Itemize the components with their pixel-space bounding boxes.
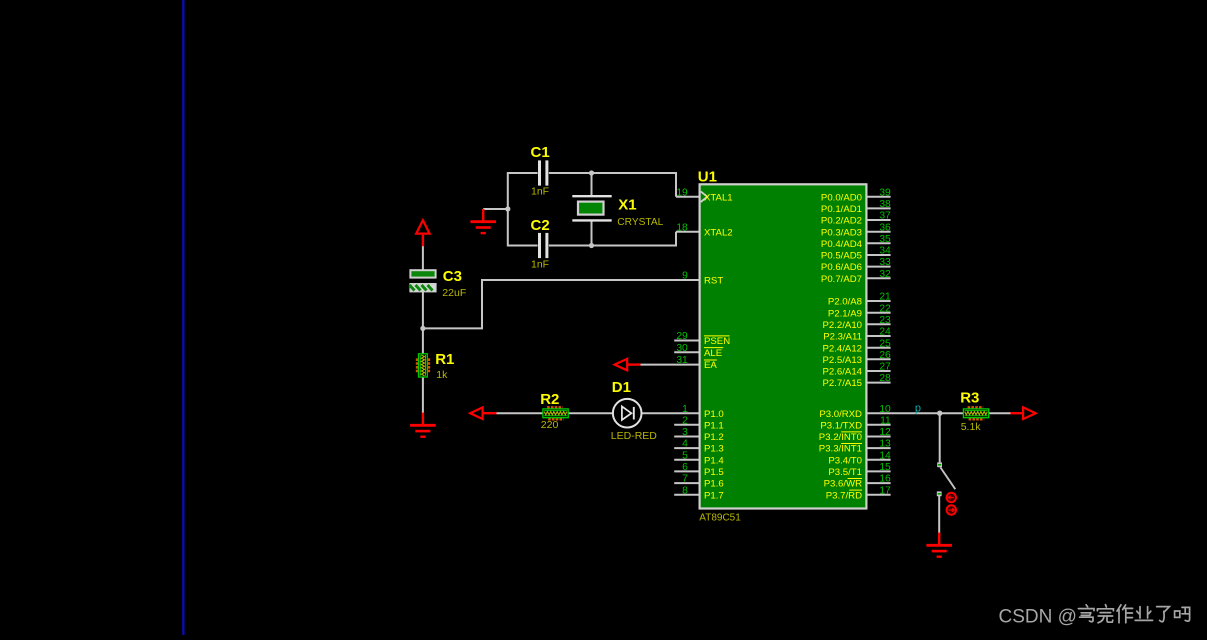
- wire: ground stub to left vertical: [483, 208, 508, 210]
- svg-text:P3.5/T1: P3.5/T1: [828, 467, 862, 478]
- svg-text:5.1k: 5.1k: [961, 421, 982, 433]
- pin 27 P2.6/A14: [823, 362, 892, 378]
- svg-text:P2.1/A9: P2.1/A9: [828, 308, 862, 319]
- wire: C1 top branch to pin19 elbow: [508, 172, 699, 197]
- svg-text:P1.0: P1.0: [704, 409, 724, 420]
- pin 22 P2.1/A9: [828, 303, 891, 319]
- svg-text:P0.4/AD4: P0.4/AD4: [821, 239, 863, 250]
- svg-text:9: 9: [682, 271, 688, 282]
- svg-text:35: 35: [879, 234, 891, 245]
- svg-text:P3.1/TXD: P3.1/TXD: [820, 420, 862, 431]
- power terminal (right arrow) after R3: [1010, 407, 1035, 419]
- svg-text:P2.4/A12: P2.4/A12: [823, 343, 862, 354]
- power terminal VCC (up arrow) above C3: [416, 220, 429, 246]
- pin 17 P3.7/RD: [826, 485, 891, 501]
- svg-text:1: 1: [682, 404, 688, 415]
- svg-text:31: 31: [676, 355, 688, 366]
- svg-text:22uF: 22uF: [442, 287, 466, 299]
- pin 3 P1.2: [674, 427, 724, 443]
- svg-text:R1: R1: [435, 351, 454, 368]
- svg-text:P3.3/INT1: P3.3/INT1: [819, 444, 862, 455]
- pin 35 P0.4/AD4: [821, 234, 891, 250]
- clock input symbol at XTAL1: [701, 191, 708, 202]
- wire: crystal bottom drop: [591, 220, 593, 245]
- wire: left vertical joining C1 and C2: [507, 172, 509, 247]
- svg-text:P0.5/AD5: P0.5/AD5: [821, 251, 862, 262]
- svg-text:P1.3: P1.3: [704, 444, 724, 455]
- svg-text:P2.3/A11: P2.3/A11: [823, 332, 862, 343]
- pin 14 P3.4/T0: [828, 450, 891, 466]
- svg-text:11: 11: [880, 415, 891, 426]
- pin 5 P1.4: [674, 450, 724, 466]
- pin 23 P2.2/A10: [823, 315, 892, 331]
- pin 6 P1.5: [674, 462, 724, 478]
- junction: C2/crystal bottom: [589, 243, 594, 248]
- svg-text:19: 19: [676, 187, 688, 198]
- wire: crystal top drop: [591, 173, 593, 196]
- junction: RST / C3-R1 vertical: [420, 326, 425, 331]
- wire: switch bottom pad to ground: [938, 496, 940, 534]
- pin 21 P2.0/A8: [828, 292, 891, 308]
- svg-text:CRYSTAL: CRYSTAL: [617, 217, 663, 228]
- svg-text:P0.1/AD1: P0.1/AD1: [821, 204, 862, 215]
- pin 13 P3.3/INT1: [819, 439, 891, 455]
- svg-text:36: 36: [879, 222, 891, 233]
- svg-text:33: 33: [879, 257, 891, 268]
- pin 37 P0.2/AD2: [821, 211, 891, 227]
- svg-text:17: 17: [879, 485, 891, 496]
- svg-text:PSEN: PSEN: [704, 336, 730, 347]
- svg-text:12: 12: [879, 427, 891, 438]
- svg-text:P2.5/A13: P2.5/A13: [823, 355, 862, 366]
- svg-text:7: 7: [682, 474, 688, 485]
- pin 31 EA: [676, 355, 717, 371]
- svg-text:P2.2/A10: P2.2/A10: [823, 320, 862, 331]
- svg-text:AT89C51: AT89C51: [699, 512, 741, 523]
- svg-text:P1.4: P1.4: [704, 455, 724, 466]
- svg-text:1k: 1k: [436, 369, 448, 381]
- pin 33 P0.6/AD6: [821, 257, 891, 273]
- junction: C1/crystal top: [589, 170, 594, 175]
- svg-text:P1.7: P1.7: [704, 490, 724, 501]
- svg-text:6: 6: [682, 462, 688, 473]
- wire: P1.0 net (chip to LED, LED to R2, R2 to terminal): [496, 412, 699, 414]
- svg-text:p: p: [915, 402, 921, 414]
- resistor R2: [543, 407, 568, 419]
- svg-text:D1: D1: [612, 379, 631, 396]
- pin 36 P0.3/AD3: [821, 222, 891, 238]
- wire: P3.0 net "p" (pin10 to R3, with switch tap): [867, 412, 1011, 414]
- svg-text:EA: EA: [704, 360, 717, 371]
- ground: crystal net: [470, 209, 496, 233]
- svg-text:15: 15: [879, 462, 891, 473]
- svg-text:P3.6/WR: P3.6/WR: [824, 479, 862, 490]
- svg-text:1nF: 1nF: [531, 186, 549, 198]
- svg-text:5: 5: [682, 450, 688, 461]
- svg-text:P0.6/AD6: P0.6/AD6: [821, 262, 862, 273]
- svg-text:P1.2: P1.2: [704, 432, 724, 443]
- pin 10 P3.0/RXD: [819, 404, 891, 420]
- wire: junction down to switch top pad: [939, 413, 941, 462]
- svg-text:24: 24: [879, 327, 891, 338]
- svg-text:16: 16: [879, 474, 891, 485]
- pin 30 ALE: [674, 343, 723, 359]
- svg-text:37: 37: [879, 211, 891, 222]
- pin 24 P2.3/A11: [823, 327, 891, 343]
- LED D1: [613, 399, 642, 428]
- svg-text:10: 10: [879, 404, 891, 415]
- svg-text:22: 22: [879, 303, 891, 314]
- svg-text:P0.7/AD7: P0.7/AD7: [821, 274, 862, 285]
- svg-text:P2.6/A14: P2.6/A14: [823, 367, 863, 378]
- capacitor C1: [538, 160, 548, 185]
- wire: VCC arrow to C3 top plate: [422, 246, 424, 270]
- pin 18 XTAL2: [676, 222, 732, 238]
- svg-text:P3.4/T0: P3.4/T0: [828, 455, 862, 466]
- switch pole pads and lever: [937, 462, 956, 496]
- svg-text:220: 220: [541, 419, 559, 431]
- switch actuator circles: [947, 493, 956, 515]
- pin 8 P1.7: [674, 485, 724, 501]
- svg-text:P1.6: P1.6: [704, 479, 724, 490]
- svg-text:4: 4: [682, 439, 688, 450]
- svg-text:34: 34: [879, 246, 891, 257]
- power terminal (left arrow) at R2: [470, 407, 496, 419]
- svg-text:25: 25: [879, 338, 891, 349]
- pin 34 P0.5/AD5: [821, 246, 891, 262]
- pin 25 P2.4/A12: [823, 338, 892, 354]
- svg-text:18: 18: [676, 222, 688, 233]
- capacitor C2: [538, 233, 548, 258]
- capacitor C3 (electrolytic): [410, 270, 436, 291]
- pin 9 RST: [682, 271, 723, 287]
- svg-text:26: 26: [879, 350, 891, 361]
- junction: P3.0 / switch: [937, 411, 942, 416]
- svg-text:38: 38: [879, 199, 891, 210]
- svg-text:R3: R3: [960, 390, 979, 407]
- pin 2 P1.1: [674, 415, 724, 431]
- svg-text:14: 14: [879, 450, 891, 461]
- wire: C3 bottom plate to R1 top: [422, 292, 424, 355]
- pin 29 PSEN: [674, 331, 730, 347]
- svg-text:U1: U1: [698, 169, 717, 186]
- pin 38 P0.1/AD1: [821, 199, 891, 215]
- svg-text:3: 3: [682, 427, 688, 438]
- svg-text:X1: X1: [618, 197, 636, 214]
- svg-text:P2.7/A15: P2.7/A15: [823, 378, 862, 389]
- pin 1 P1.0: [682, 404, 724, 420]
- svg-text:XTAL2: XTAL2: [704, 227, 733, 238]
- svg-text:P3.0/RXD: P3.0/RXD: [819, 409, 862, 420]
- svg-text:8: 8: [682, 485, 688, 496]
- pin 15 P3.5/T1: [828, 462, 891, 478]
- svg-text:27: 27: [879, 362, 891, 373]
- svg-text:P0.0/AD0: P0.0/AD0: [821, 192, 862, 203]
- svg-text:P0.2/AD2: P0.2/AD2: [821, 216, 862, 227]
- junction: ground / left vertical: [505, 206, 510, 211]
- wire: EA terminal to pin31: [640, 364, 699, 366]
- svg-text:P3.7/RD: P3.7/RD: [826, 490, 862, 501]
- svg-text:39: 39: [879, 187, 891, 198]
- pin 11 P3.1/TXD: [820, 415, 891, 431]
- svg-text:P1.5: P1.5: [704, 467, 724, 478]
- svg-text:P2.0/A8: P2.0/A8: [828, 297, 862, 308]
- svg-text:2: 2: [682, 415, 688, 426]
- ground: below R1: [410, 413, 436, 437]
- svg-text:32: 32: [879, 269, 891, 280]
- svg-text:C2: C2: [531, 217, 550, 234]
- svg-text:28: 28: [879, 373, 891, 384]
- svg-text:CSDN @: CSDN @: [999, 607, 1077, 628]
- svg-text:RST: RST: [704, 276, 723, 287]
- power terminal (left arrow) at EA pin31: [615, 359, 641, 371]
- pin 12 P3.2/INT0: [819, 427, 891, 443]
- pin 16 P3.6/WR: [824, 474, 891, 490]
- resistor R3: [963, 407, 988, 419]
- svg-text:13: 13: [879, 439, 891, 450]
- svg-text:ALE: ALE: [704, 348, 722, 359]
- svg-text:C1: C1: [531, 144, 550, 161]
- pin 28 P2.7/A15: [823, 373, 892, 389]
- blue page border line: [182, 0, 184, 635]
- pin 4 P1.3: [674, 439, 724, 455]
- wire: R1 bottom to ground: [422, 377, 424, 413]
- crystal X1: [572, 196, 611, 220]
- svg-text:R2: R2: [540, 391, 559, 408]
- svg-text:29: 29: [676, 331, 688, 342]
- wire: RST net: [423, 279, 699, 328]
- pin 7 P1.6: [674, 474, 724, 490]
- wire: C2 bottom branch to pin18 elbow: [508, 232, 699, 247]
- svg-text:30: 30: [676, 343, 688, 354]
- svg-text:P3.2/INT0: P3.2/INT0: [819, 432, 862, 443]
- microcontroller U1 AT89C51 body: [700, 184, 867, 508]
- pin 39 P0.0/AD0: [821, 187, 891, 203]
- ground: below switch: [926, 533, 952, 557]
- resistor R1: [417, 354, 429, 377]
- svg-text:P1.1: P1.1: [704, 420, 724, 431]
- svg-text:LED-RED: LED-RED: [611, 430, 658, 442]
- pin 26 P2.5/A13: [823, 350, 892, 366]
- svg-text:XTAL1: XTAL1: [704, 192, 733, 203]
- svg-text:1nF: 1nF: [531, 258, 549, 270]
- svg-text:23: 23: [879, 315, 891, 326]
- pin 19 XTAL1: [676, 187, 732, 203]
- svg-text:C3: C3: [443, 268, 462, 285]
- svg-text:21: 21: [879, 292, 891, 303]
- pin 32 P0.7/AD7: [821, 269, 891, 285]
- svg-text:P0.3/AD3: P0.3/AD3: [821, 227, 862, 238]
